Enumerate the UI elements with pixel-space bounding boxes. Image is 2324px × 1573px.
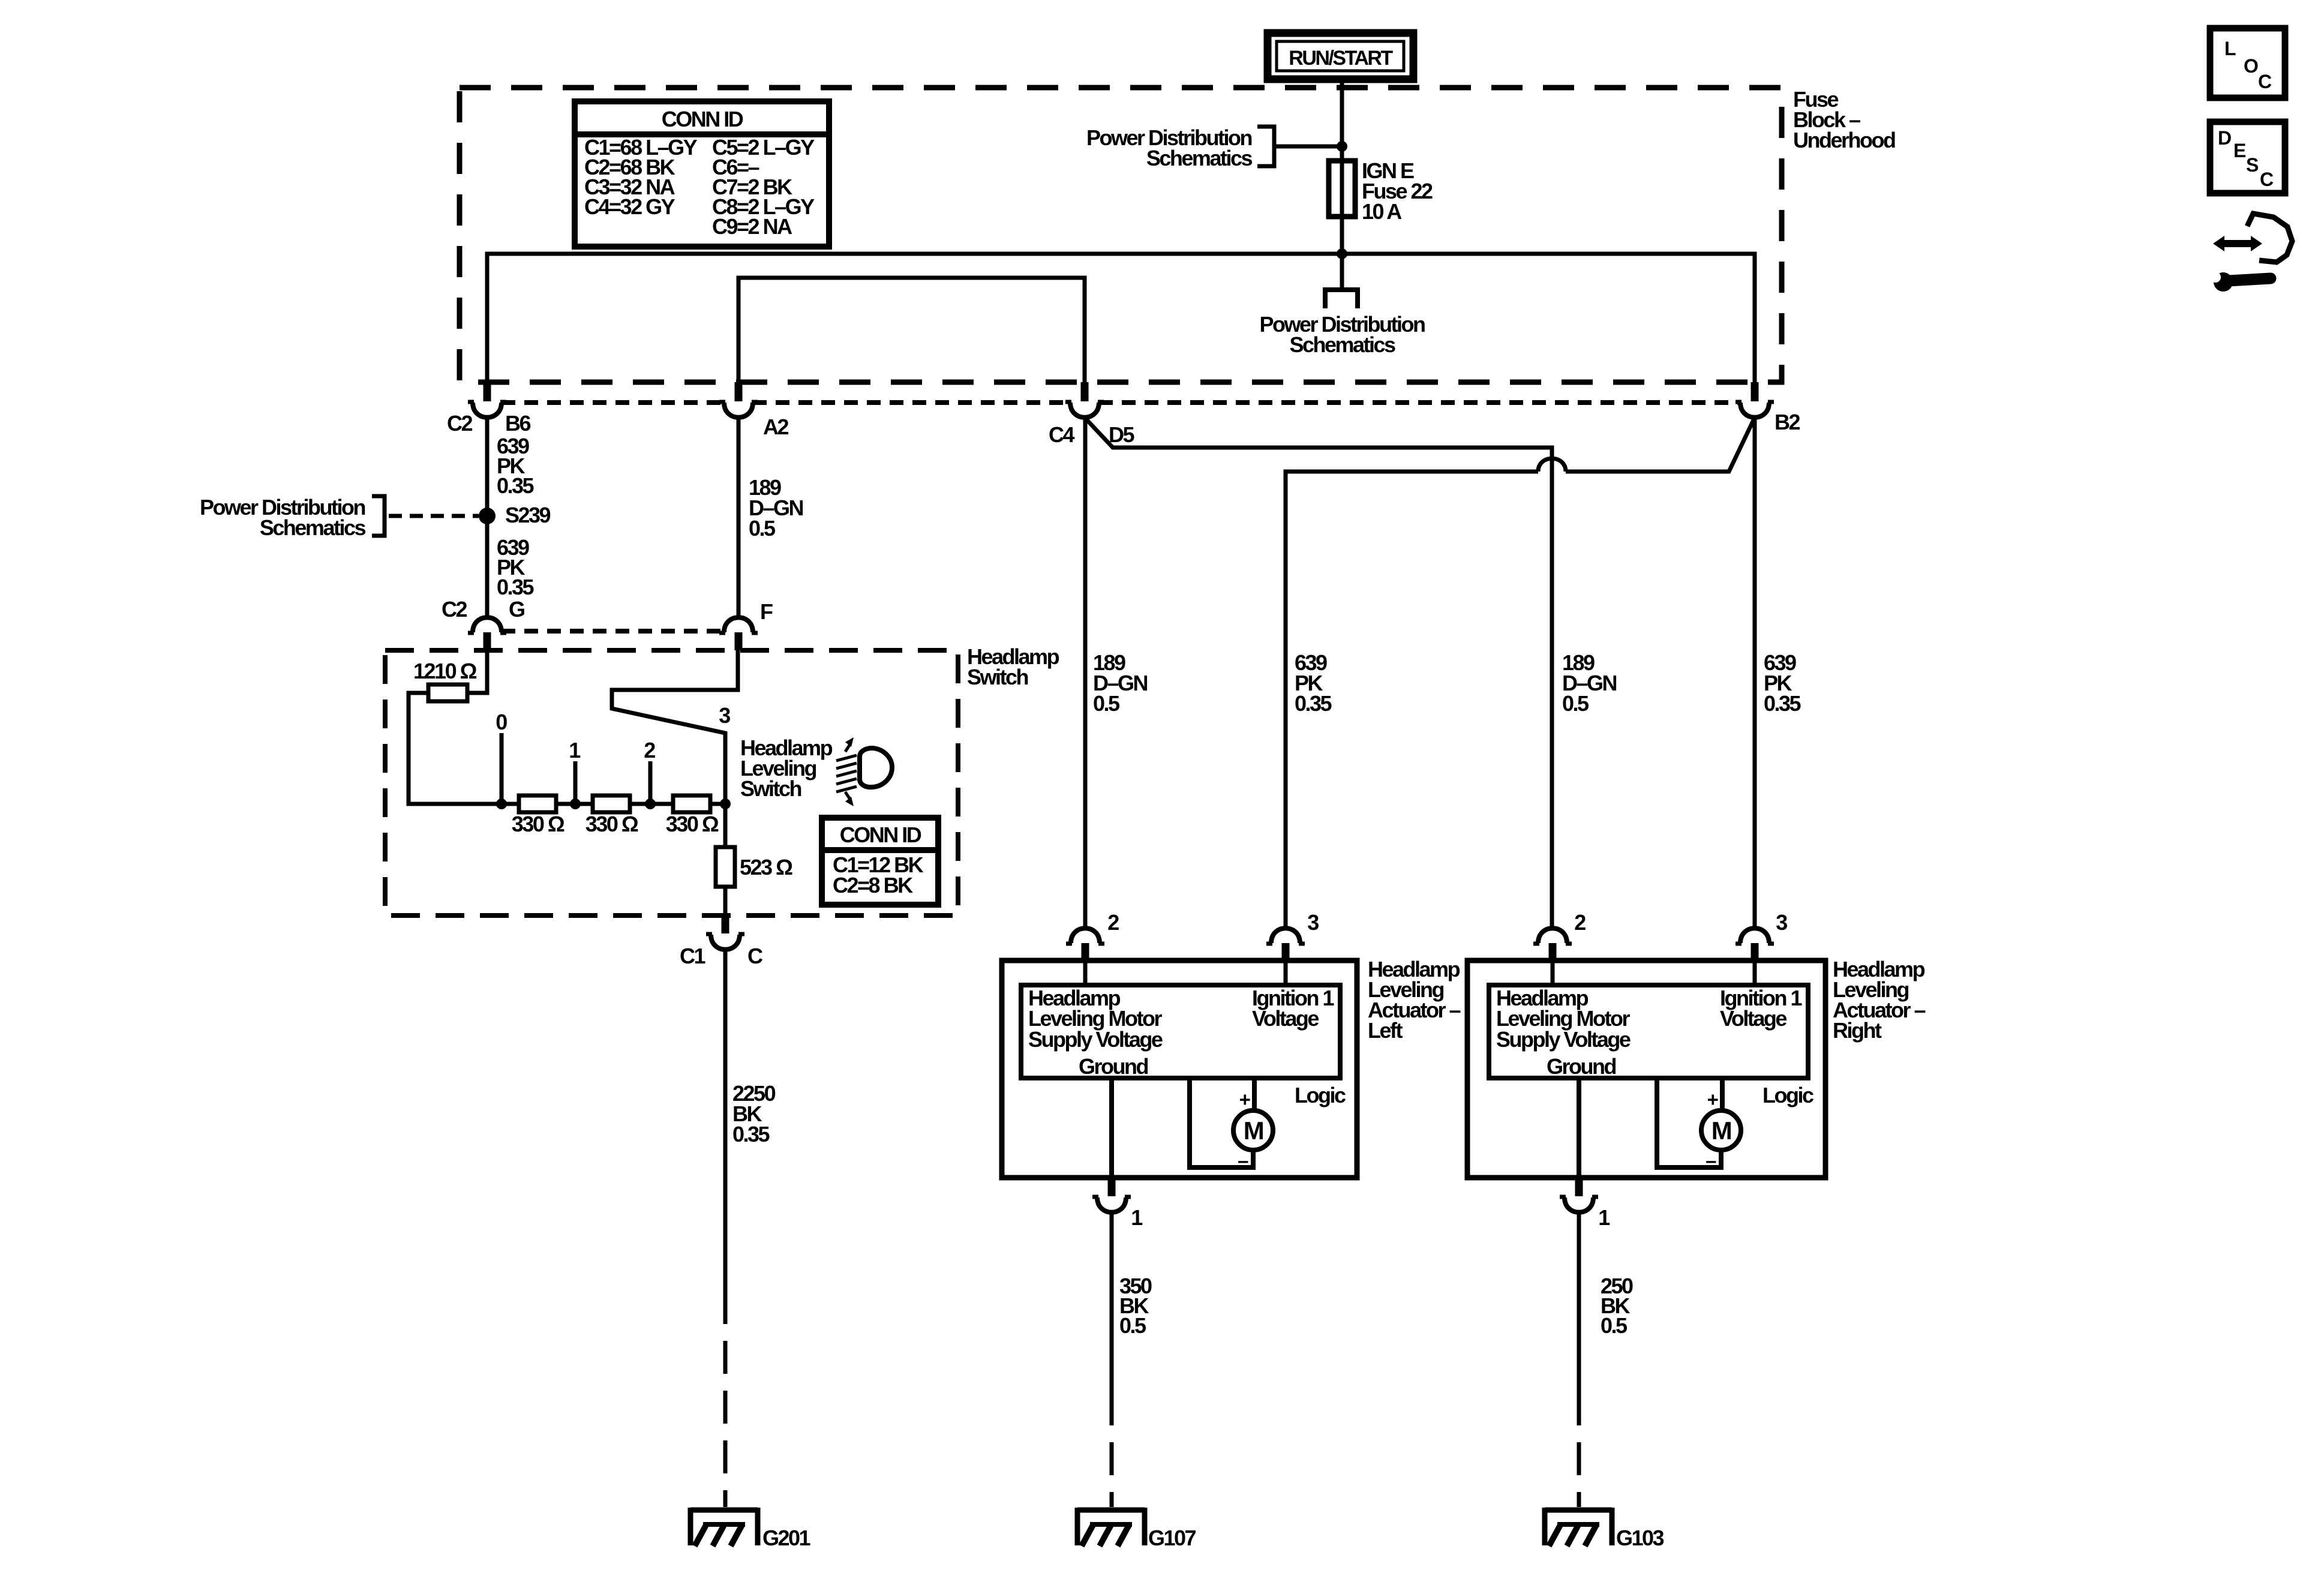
wire dashed ref to S239 (389, 514, 479, 518)
svg-text:0.35: 0.35 (1295, 691, 1332, 716)
svg-text:O: O (2244, 55, 2258, 77)
connector pin 1 left actuator (1092, 1178, 1143, 1230)
svg-text:330 Ω: 330 Ω (666, 812, 719, 836)
wire 639 PK upper (485, 418, 490, 618)
svg-text:G103: G103 (1616, 1526, 1664, 1550)
svg-text:–: – (1238, 1149, 1248, 1172)
svg-text:B6: B6 (505, 411, 530, 436)
resistor 330 a (512, 795, 565, 836)
svg-text:C4=32 GY: C4=32 GY (584, 194, 675, 219)
icon headlamp leveling (836, 737, 892, 806)
svg-text:–: – (1706, 1149, 1716, 1172)
svg-text:CONN ID: CONN ID (662, 107, 743, 131)
svg-text:330 Ω: 330 Ω (512, 812, 565, 836)
label 639 PK 0.35 left (1295, 650, 1332, 716)
connector C4 pin B2 (1736, 382, 1800, 434)
connector pin 3 right actuator (1736, 910, 1787, 985)
icon LOC box (2210, 28, 2285, 98)
svg-text:C: C (747, 944, 763, 968)
table CONN ID switch (822, 818, 938, 905)
svg-text:0.5: 0.5 (1119, 1313, 1146, 1338)
svg-text:10 A: 10 A (1362, 199, 1402, 224)
svg-text:C2: C2 (442, 597, 467, 622)
node bus junction (1337, 248, 1347, 259)
svg-text:D: D (2218, 127, 2231, 149)
splice S239 (479, 503, 551, 527)
svg-text:3: 3 (1776, 910, 1787, 935)
resistor 523 (716, 804, 792, 915)
svg-text:L: L (2224, 38, 2236, 59)
fuse IGN E Fuse 22 10A (1329, 161, 1355, 217)
wire RUN/START to fuse (1340, 79, 1344, 163)
ground G201 (690, 1508, 811, 1550)
svg-text:Logic: Logic (1295, 1083, 1346, 1107)
label 189 D-GN 0.5 left (1093, 650, 1148, 716)
svg-text:C: C (2260, 169, 2274, 190)
motor M left (1190, 1078, 1273, 1172)
svg-text:A2: A2 (763, 415, 788, 439)
wire ground right actuator (1577, 1078, 1581, 1178)
label 189 D-GN 0.5 (A2) (749, 475, 803, 541)
bracket power distribution ref down (1325, 290, 1358, 308)
label 250 BK 0.5 (1601, 1274, 1633, 1338)
svg-text:0.5: 0.5 (1601, 1313, 1628, 1338)
wire 2250 BK (723, 950, 728, 1291)
label IGN E Fuse 22 10 A (1362, 158, 1433, 224)
label Power Distribution Schematics (S239) (200, 495, 365, 540)
svg-text:CONN ID: CONN ID (840, 822, 921, 847)
icon adjust arrow-wrench (2210, 214, 2292, 292)
label 639 PK 0.35 right (1764, 650, 1801, 716)
wire ground left actuator (1109, 1078, 1114, 1178)
resistor 330 c (666, 795, 719, 836)
svg-text:1: 1 (1598, 1205, 1610, 1230)
resistor 1210 (413, 659, 477, 701)
svg-text:Supply Voltage: Supply Voltage (1496, 1027, 1631, 1052)
connector pin 2 left actuator (1066, 910, 1119, 985)
bracket S239 ref (372, 496, 385, 536)
label Fuse Block - Underhood (1793, 87, 1895, 152)
label Headlamp Leveling Actuator - Left (1368, 957, 1461, 1043)
label actuator right inputs (1496, 986, 1813, 1107)
headlamp switch dashed box (385, 650, 958, 915)
svg-text:Voltage: Voltage (1720, 1006, 1786, 1031)
svg-text:Left: Left (1368, 1018, 1403, 1043)
svg-text:Logic: Logic (1762, 1083, 1813, 1107)
svg-text:Ground: Ground (1079, 1054, 1148, 1079)
connector pin 3 left actuator (1266, 910, 1319, 985)
wire 1210 to ladder (409, 693, 502, 804)
svg-text:0.5: 0.5 (1093, 691, 1120, 716)
node ladder-wiper (720, 798, 731, 809)
power source RUN/START (1268, 33, 1413, 79)
wire 189 D-GN left (C4 to pin2) (1083, 418, 1088, 928)
wire fuse to bus (1340, 217, 1344, 254)
connector pin 2 right actuator (1533, 910, 1586, 985)
actuator right inner block (1489, 985, 1808, 1078)
svg-text:C: C (2258, 71, 2272, 92)
connector C1 pin C (680, 915, 763, 968)
svg-text:Schematics: Schematics (1146, 146, 1253, 170)
connector C1 pin A2 (719, 382, 788, 439)
label 350 BK 0.5 (1119, 1274, 1152, 1338)
wire 250 BK (1577, 1212, 1581, 1392)
svg-text:E: E (2233, 140, 2246, 161)
svg-text:M: M (1712, 1116, 1731, 1145)
ground G107 (1077, 1508, 1196, 1550)
svg-text:2: 2 (644, 738, 655, 763)
svg-text:+: + (1239, 1088, 1250, 1110)
svg-text:2: 2 (1574, 910, 1586, 935)
label Power Distribution Schematics (bus) (1259, 312, 1425, 357)
wire B2 branch to left actuator (1286, 418, 1755, 928)
svg-text:RUN/START: RUN/START (1289, 47, 1393, 70)
svg-text:Switch: Switch (967, 665, 1028, 689)
svg-text:2: 2 (1107, 910, 1119, 935)
wire 350 BK (1110, 1212, 1114, 1392)
motor M right (1657, 1078, 1741, 1172)
svg-text:M: M (1244, 1116, 1263, 1145)
svg-text:C2=8 BK: C2=8 BK (833, 873, 913, 897)
table CONN ID fuse block (575, 101, 829, 247)
wire 639 PK right (B2 to pin3) (1753, 418, 1757, 928)
wire ref to fuse node (1274, 145, 1342, 149)
svg-text:G201: G201 (762, 1526, 811, 1550)
connector pin 1 right actuator (1560, 1178, 1610, 1230)
svg-text:0.35: 0.35 (732, 1122, 770, 1146)
actuator left inner block (1021, 985, 1340, 1078)
svg-text:G107: G107 (1148, 1526, 1196, 1550)
svg-text:C9=2 NA: C9=2 NA (712, 214, 792, 239)
headlamp leveling actuator right box (1467, 960, 1825, 1178)
connector C2 pin G (442, 597, 524, 650)
label Headlamp Leveling Actuator - Right (1833, 957, 1926, 1043)
svg-text:Switch: Switch (740, 776, 801, 801)
svg-text:523 Ω: 523 Ω (740, 855, 792, 879)
svg-text:G: G (509, 597, 524, 622)
svg-text:Ground: Ground (1547, 1054, 1616, 1079)
svg-text:C1: C1 (680, 944, 705, 968)
ground G103 (1545, 1508, 1664, 1550)
svg-text:3: 3 (719, 703, 730, 728)
svg-text:330 Ω: 330 Ω (585, 812, 638, 836)
wire D5 branch to right actuator (1085, 418, 1552, 928)
icon DESC box (2210, 122, 2285, 193)
label Power Distribution Schematics (fuse feed) (1086, 125, 1252, 170)
svg-text:Supply Voltage: Supply Voltage (1028, 1027, 1163, 1052)
svg-text:Right: Right (1833, 1018, 1882, 1043)
connector pin F (719, 599, 773, 650)
svg-text:1: 1 (569, 738, 581, 763)
wire bus B6-B2 (487, 254, 1755, 382)
resistor 330 b (585, 795, 638, 836)
wire ladder chain (502, 802, 725, 806)
svg-text:C4: C4 (1049, 422, 1074, 447)
wire wiper from F (612, 650, 738, 804)
label 2250 BK 0.35 (732, 1081, 776, 1146)
label 639 PK 0.35 upper (497, 434, 535, 498)
svg-text:Schematics: Schematics (1289, 332, 1395, 357)
svg-text:S: S (2246, 154, 2259, 176)
switch position 2 stub (644, 738, 656, 809)
label 639 PK 0.35 lower (497, 535, 535, 599)
label actuator left inputs (1028, 986, 1346, 1107)
label Headlamp Leveling Switch (740, 736, 833, 801)
svg-text:0.35: 0.35 (1764, 691, 1801, 716)
svg-text:1210 Ω: 1210 Ω (413, 659, 477, 683)
svg-text:Schematics: Schematics (260, 515, 366, 540)
wire bus to ref symbol (1340, 254, 1344, 290)
connector C4 pin D5 (1049, 382, 1135, 447)
svg-text:3: 3 (1307, 910, 1319, 935)
connector C2 pin B6 (447, 382, 531, 436)
label Headlamp Switch (967, 644, 1059, 689)
svg-text:0.5: 0.5 (1562, 691, 1589, 716)
wire 350 BK dashed to G107 (1110, 1392, 1114, 1507)
svg-text:B2: B2 (1774, 410, 1800, 434)
wire 2250 BK dashed to G201 (723, 1291, 728, 1507)
svg-text:0.35: 0.35 (497, 473, 535, 498)
svg-text:Underhood: Underhood (1793, 128, 1895, 152)
bracket (fuse feed ref) (1257, 127, 1274, 166)
svg-text:S239: S239 (505, 503, 551, 527)
svg-text:0.35: 0.35 (497, 575, 535, 599)
svg-text:F: F (760, 599, 773, 624)
wire bus A2-D5 (738, 278, 1085, 382)
connector face row1 dotted (502, 400, 1740, 405)
svg-text:C2: C2 (447, 411, 472, 436)
fuse block underhood dashed box (460, 88, 1782, 382)
svg-text:Voltage: Voltage (1252, 1006, 1319, 1031)
switch position 1 stub (569, 738, 581, 809)
node fuse feed (1337, 141, 1347, 152)
svg-text:D5: D5 (1109, 422, 1134, 447)
wire 189 D-GN to F (737, 418, 741, 618)
svg-text:1: 1 (1131, 1205, 1143, 1230)
svg-text:0.5: 0.5 (749, 516, 776, 541)
svg-text:+: + (1707, 1088, 1718, 1110)
connector face row2 dotted (502, 629, 724, 634)
switch position 0 stub (496, 710, 507, 809)
svg-text:0: 0 (496, 710, 507, 734)
wire 250 BK dashed to G103 (1577, 1392, 1581, 1507)
label 189 D-GN 0.5 right (1562, 650, 1617, 716)
headlamp leveling actuator left box (1002, 960, 1357, 1178)
wire G to resistor 1210 (467, 650, 487, 693)
